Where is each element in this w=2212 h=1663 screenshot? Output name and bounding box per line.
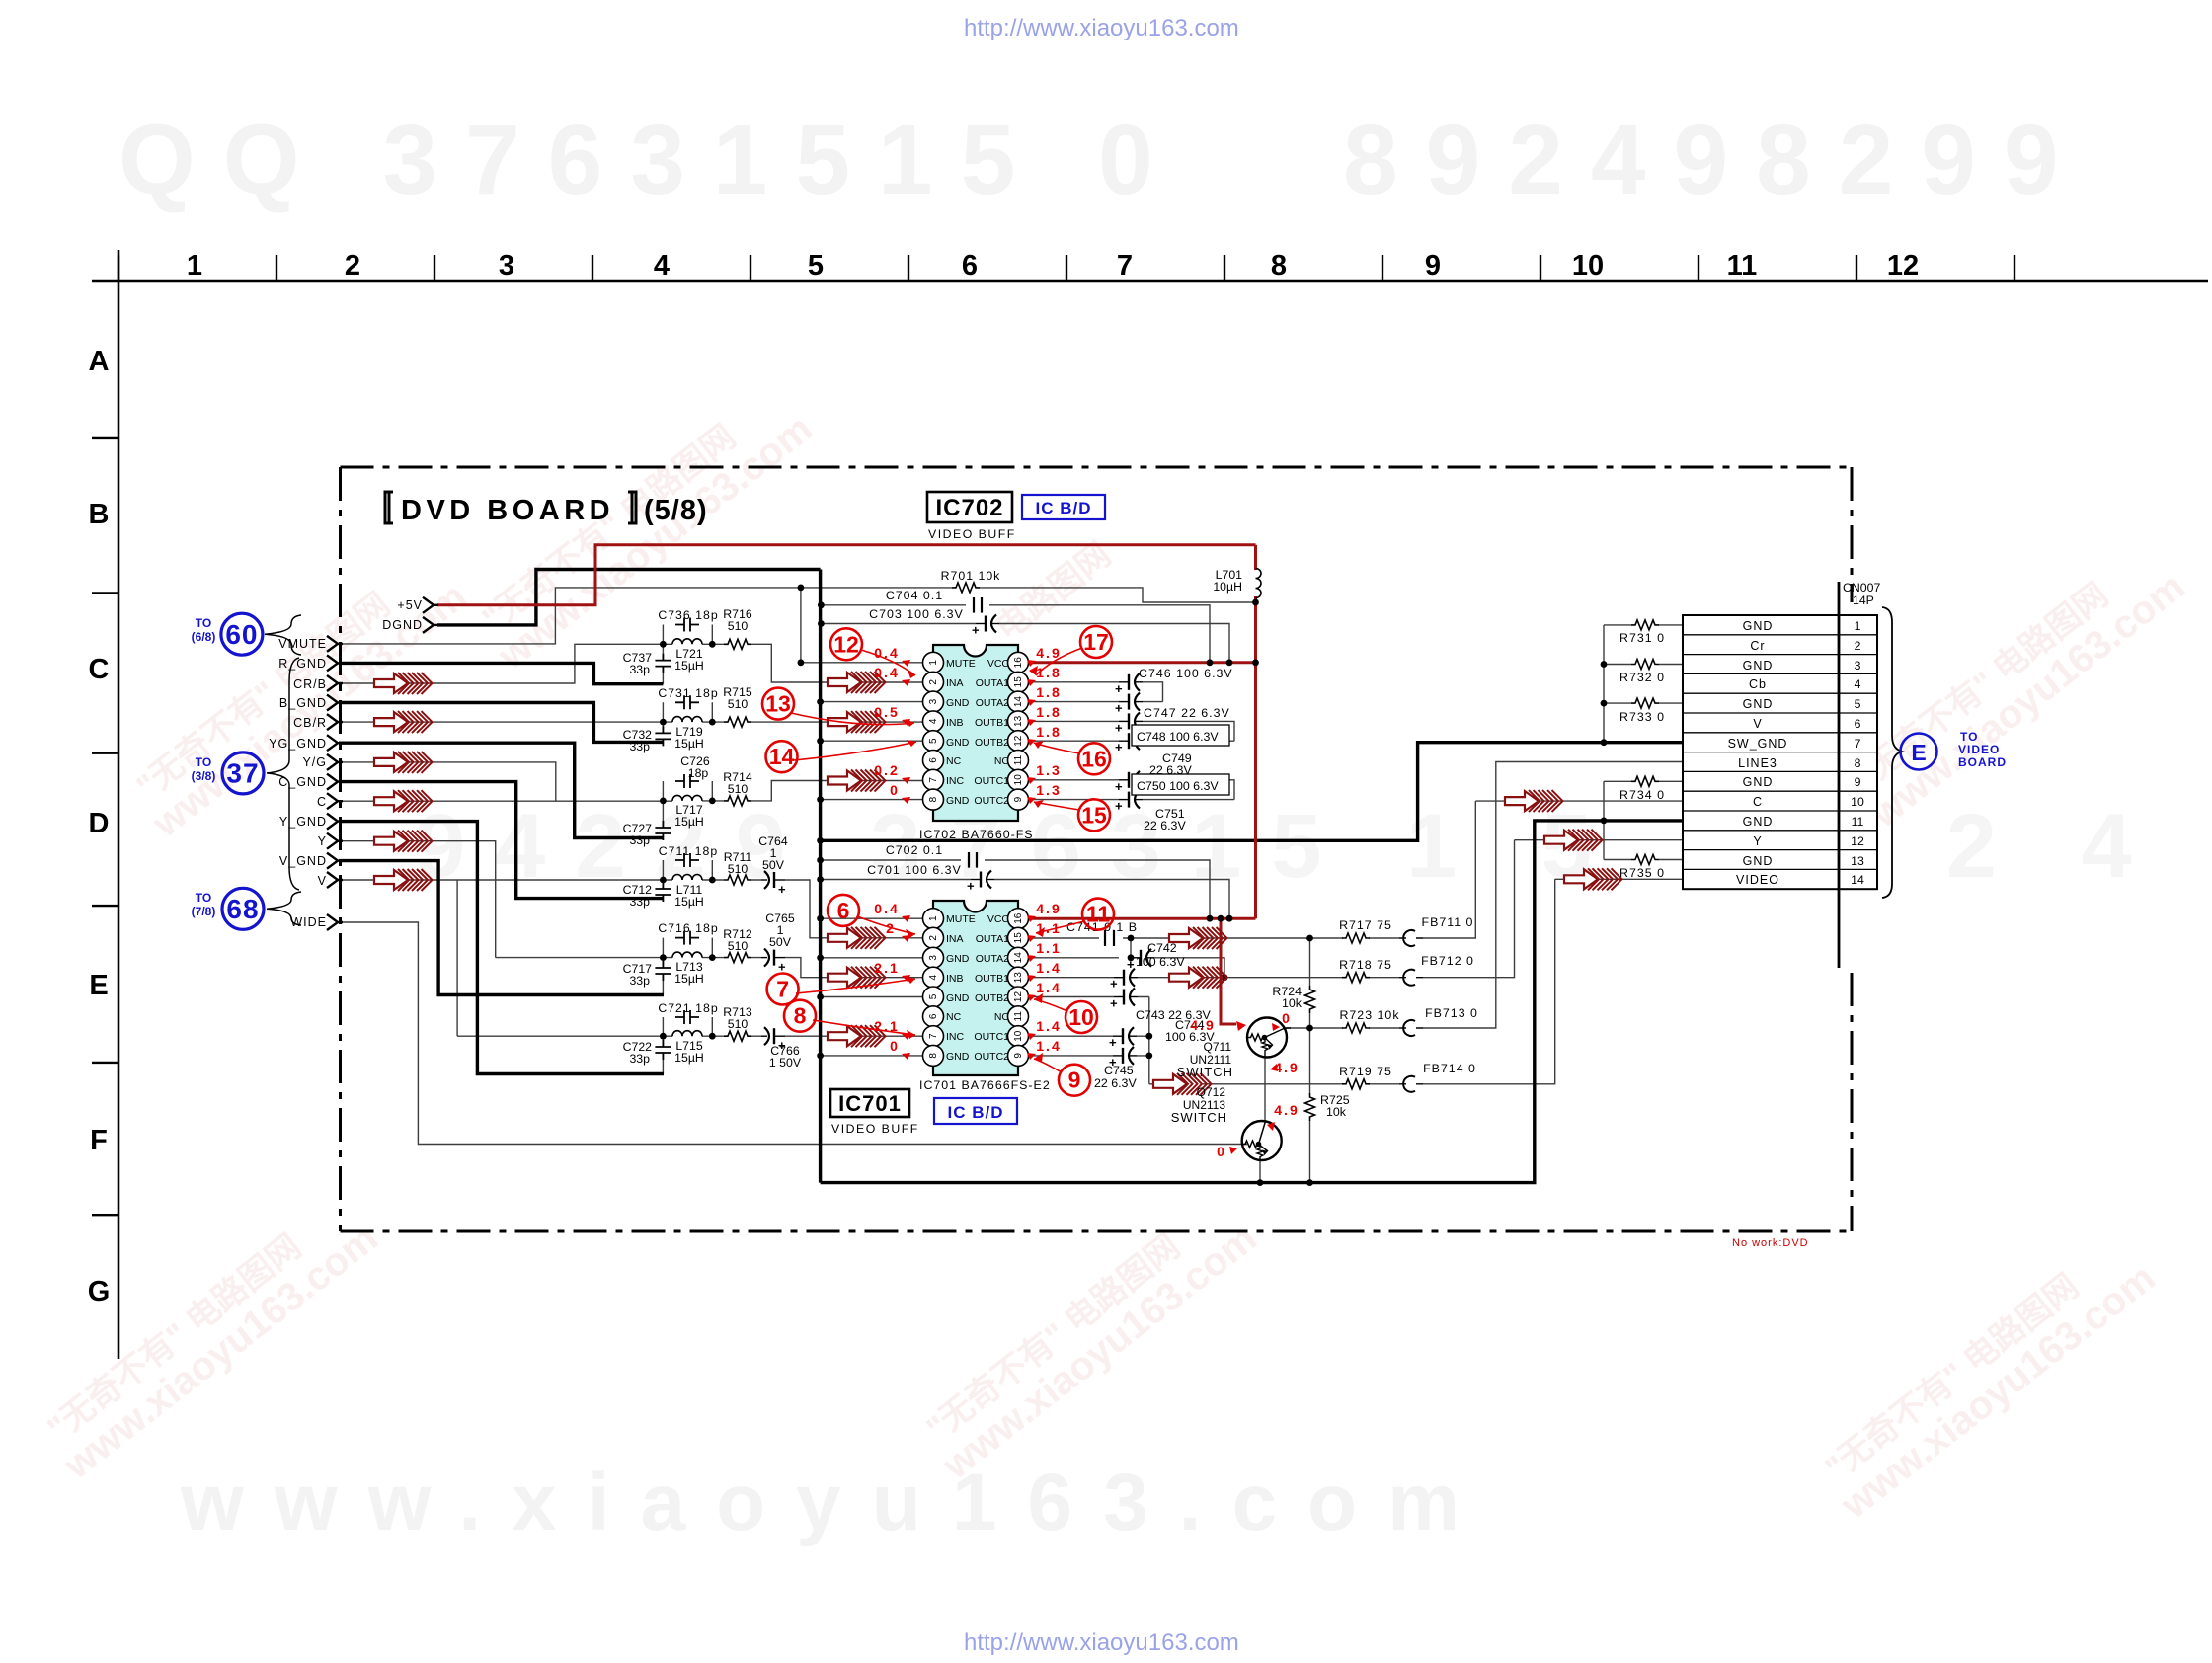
svg-text:1.8: 1.8 [1036,665,1061,680]
svg-text:510: 510 [728,782,749,796]
node IC702 gnd pins [817,698,824,705]
red callout leader curves [791,648,1084,1072]
wire C704 line [821,605,1210,663]
svg-text:1.4: 1.4 [1036,980,1061,995]
svg-text:33p: 33p [629,895,650,909]
svg-text:1.3: 1.3 [1036,762,1061,778]
resistor R733 [1631,698,1659,708]
svg-text:R732 0: R732 0 [1619,671,1665,684]
svg-text:10: 10 [1013,774,1024,786]
resistor R716 [724,639,751,649]
node IC701 pins [817,915,824,922]
svg-text:510: 510 [728,862,749,876]
resistor R723 [1342,1023,1370,1033]
svg-text:(5/8): (5/8) [644,495,708,526]
svg-text:0.4: 0.4 [874,645,899,661]
wire row10 C to connector [1475,800,1683,802]
svg-text:33p: 33p [629,1052,650,1066]
wire SW_GND branch [821,743,1683,841]
wire C row through filter F3 [339,781,923,802]
callout circle 16 [1078,743,1110,774]
svg-text:0.5: 0.5 [874,704,899,720]
dash-dot border box of DVD BOARD [341,467,1853,1231]
svg-text:50V: 50V [769,935,792,949]
svg-text:C_GND: C_GND [278,775,327,789]
svg-text:4.9: 4.9 [1036,901,1061,916]
svg-text:4.9: 4.9 [1190,1017,1215,1033]
svg-text:12: 12 [1013,735,1024,747]
svg-text:0.4: 0.4 [874,665,899,680]
capacitor C704 [974,597,982,613]
arrow V [374,869,433,891]
svg-text:OUTB1: OUTB1 [975,717,1009,729]
svg-text:10k: 10k [1326,1105,1347,1119]
svg-text:http://www.xiaoyu163.com: http://www.xiaoyu163.com [964,15,1239,41]
svg-text:B_GND: B_GND [279,696,327,710]
capacitor C701 [967,871,994,894]
resistor R718 [1342,973,1370,983]
svg-text:MUTE: MUTE [946,913,976,925]
svg-text:37: 37 [226,758,259,789]
svg-text:GND: GND [1743,659,1774,673]
node F4 filter [660,877,667,884]
node C702/C701 taps [817,857,824,864]
node R701/MUTE [798,585,805,592]
svg-text:4: 4 [928,974,939,980]
svg-text:5: 5 [1855,697,1861,711]
node R724 chain [1306,935,1313,942]
svg-text:Y/G: Y/G [302,755,327,769]
svg-text:QQ 37631515 0: QQ 37631515 0 [118,105,1181,215]
arrow Y/G [374,752,433,773]
svg-text:FB714 0: FB714 0 [1423,1062,1476,1075]
node C703 tap [818,620,825,627]
wire R724/R725 chain [1309,938,1311,1183]
svg-text:Cb: Cb [1749,677,1767,691]
svg-text:VIDEO BUFF: VIDEO BUFF [831,1122,919,1136]
svg-text:LINE3: LINE3 [1738,756,1777,770]
wire row14 VIDEO to connector [1555,878,1683,880]
svg-text:14: 14 [1013,952,1024,964]
capacitor C750 [1115,791,1143,814]
svg-text:Q711: Q711 [1204,1040,1232,1054]
svg-text:510: 510 [728,939,749,953]
svg-text:YG_GND: YG_GND [269,737,327,751]
svg-text:VCC: VCC [987,913,1010,925]
svg-text:SWITCH: SWITCH [1171,1110,1227,1125]
svg-text:6: 6 [928,1013,939,1019]
ferrite FB713 [1399,1020,1423,1036]
callout circle 17 [1080,626,1112,658]
svg-text:2: 2 [345,250,360,281]
wire Y_GND [339,822,664,1074]
wire V branch down to filter F6 [456,880,458,1036]
svg-text:15: 15 [1013,932,1024,944]
svg-text:18p: 18p [688,766,709,780]
callout circle 14 [766,741,798,772]
wire R731 group vertical [1603,625,1605,743]
svg-text:OUTA1: OUTA1 [976,933,1009,945]
callout circle 12 [830,628,862,660]
IC701 pins [923,909,1029,1067]
wire R733 row [1604,702,1683,704]
node F2 filter [660,719,667,726]
svg-text:33p: 33p [629,833,650,847]
svg-text:11: 11 [1852,815,1864,829]
wire VCC to IC701 pin16 [1029,917,1256,920]
connector pin line [1838,582,1841,968]
wire F6 row to IC701 pin7 [457,1035,922,1037]
svg-text:12: 12 [1851,834,1864,848]
svg-text:C701 100 6.3V: C701 100 6.3V [867,863,962,877]
svg-text:SWITCH: SWITCH [1177,1065,1233,1079]
svg-text:C731 18p: C731 18p [658,686,718,700]
red leader arrowheads [906,666,1045,1063]
svg-text:IC701 BA7666FS-E2: IC701 BA7666FS-E2 [919,1078,1051,1092]
wire C726 bridge legs [663,781,712,801]
wire Y step down to filter F5 [339,841,496,958]
wire C711 bridge legs [663,860,712,880]
watermark: pink diagonal clusters [33,378,2193,1528]
svg-text:IC B/D: IC B/D [1036,499,1092,517]
resistor R714 [724,796,751,806]
svg-text:6: 6 [837,898,850,923]
svg-text:NC: NC [946,1011,962,1023]
resistor R734 [1631,776,1659,786]
svg-text:www.xiaoyu163.com: www.xiaoyu163.com [180,1458,1490,1547]
wire IC702 pin12 OUTB2 to C748 [1029,740,1235,742]
capacitor C744 [1109,1027,1137,1050]
svg-text:8: 8 [1271,250,1287,281]
svg-text:14: 14 [769,744,795,769]
svg-text:14: 14 [1013,696,1024,708]
svg-text:INA: INA [946,677,964,689]
svg-text:11: 11 [1727,250,1758,281]
svg-text:Y_GND: Y_GND [279,815,327,829]
wire C717 stub [662,958,664,995]
inductor L713 [672,952,702,958]
svg-text:4.9: 4.9 [1274,1102,1299,1118]
svg-text:DGND: DGND [382,618,423,632]
wire R_GND [339,663,663,683]
svg-text:5: 5 [928,738,939,744]
svg-text:7: 7 [1117,250,1133,281]
svg-text:0: 0 [1282,1010,1292,1026]
node gnd branch [817,837,824,844]
capacitor C726 [675,774,699,788]
svg-text:1: 1 [928,660,939,666]
wire C_GND [339,782,664,899]
wire IC702 pin3 GND [821,701,923,703]
node R73x group [1601,661,1608,668]
svg-text:C747 22 6.3V: C747 22 6.3V [1144,706,1230,720]
svg-text:1.1: 1.1 [1036,940,1061,956]
svg-text:(6/8): (6/8) [192,630,216,644]
svg-text:IC B/D: IC B/D [948,1103,1004,1122]
inductor L715 [672,1031,702,1037]
svg-text:GND: GND [946,953,970,965]
capacitor C712 [655,882,671,902]
svg-text:14: 14 [1851,873,1864,887]
svg-text:50V: 50V [762,858,785,872]
ferrite FB712 [1399,970,1423,986]
wire IC701 pin8 GND [821,1055,923,1057]
wire IC702 pin10 OUTC1 to C749 [1029,780,1235,800]
svg-text:6: 6 [1855,717,1861,731]
svg-text:15µH: 15µH [674,895,704,909]
capacitor C717 [655,961,671,981]
wire IC701 pin10 OUTC1 via C744 [1029,1035,1149,1037]
wire DGND input [437,570,821,625]
svg-text:510: 510 [728,1017,749,1031]
svg-text:C736 18p: C736 18p [658,608,718,622]
svg-text:15µH: 15µH [674,1051,704,1065]
ferrite FB711 [1399,930,1423,946]
callout circle 8 [784,1000,816,1032]
svg-text:1.8: 1.8 [1036,704,1061,720]
svg-text:+5V: +5V [397,598,423,612]
svg-text:VIDEO BUFF: VIDEO BUFF [928,527,1016,541]
wire Q711 emitter to Q712 collector [1264,1057,1266,1123]
svg-text:GND: GND [1743,697,1774,711]
svg-text:1 50V: 1 50V [769,1056,802,1069]
resistor R713 [724,1031,751,1041]
svg-text:SW_GND: SW_GND [1728,737,1788,751]
svg-text:10: 10 [1068,1004,1094,1030]
node F6 filter [660,1033,667,1040]
wire R735 row [1604,859,1683,861]
svg-text:BOARD: BOARD [1958,755,2007,769]
svg-text:GND: GND [1743,854,1774,868]
svg-text:8: 8 [1855,756,1861,770]
svg-text:Cr: Cr [1750,639,1765,653]
svg-text:C742: C742 [1147,941,1177,955]
arrow VIDEO to conn [1564,868,1622,890]
svg-text:GND: GND [946,992,970,1004]
svg-text:15µH: 15µH [674,737,704,751]
capacitor C703 [972,615,999,638]
arrow OUTC out [1153,1073,1212,1095]
wire CR/B to filter F1 [339,644,658,683]
svg-text:R717 75: R717 75 [1339,918,1392,932]
svg-text:0.2: 0.2 [874,762,899,778]
svg-text:1.4: 1.4 [1036,960,1061,976]
svg-text:Q712: Q712 [1197,1085,1226,1099]
node F3 filter [660,798,667,805]
wire C712 stub [662,880,664,885]
node C704 tap [818,601,825,608]
svg-text:R_GND: R_GND [278,657,327,671]
wire IC701 pin3 GND [821,957,923,959]
IC702 label box [927,492,1012,522]
svg-text:2: 2 [928,935,939,941]
svg-text:FB711 0: FB711 0 [1422,915,1474,929]
svg-text:1: 1 [187,250,202,281]
svg-text:VCC: VCC [987,658,1010,670]
svg-text:OUTC2: OUTC2 [974,1051,1009,1063]
svg-text:GND: GND [946,795,970,807]
svg-text:892498299: 892498299 [1343,105,2087,215]
svg-text:IC701: IC701 [838,1091,902,1116]
svg-text:R719 75: R719 75 [1339,1065,1392,1078]
svg-text:R733 0: R733 0 [1619,710,1665,724]
capacitor C745 [1109,1047,1137,1069]
svg-text:R718 75: R718 75 [1339,958,1392,972]
arrow INC IC701 [828,1025,886,1047]
svg-text:IC702: IC702 [935,495,1003,521]
wire C731 bridge legs [663,702,712,722]
capacitor C731 [675,695,699,709]
wire C737 stub to R_GND landing [662,644,664,683]
svg-text:3: 3 [928,955,939,961]
svg-text:NC: NC [946,755,962,767]
svg-text:R734 0: R734 0 [1619,788,1665,802]
op-amp/buffer IC702 body [919,645,1034,841]
node Q712 emitter [1257,1179,1264,1186]
svg-text:Y: Y [318,834,327,848]
svg-text:CN007: CN007 [1843,581,1880,594]
svg-text:FB712 0: FB712 0 [1421,954,1474,968]
svg-text:GND: GND [946,1051,970,1063]
svg-text:15µH: 15µH [674,972,704,986]
svg-text:4: 4 [928,718,939,724]
svg-text:C711 18p: C711 18p [659,844,718,858]
svg-text:15: 15 [1013,676,1024,688]
capacitor C732 [655,726,671,746]
wire B_GND [339,703,664,743]
wire C736 bridge legs [663,625,712,645]
capacitor C741 [1105,930,1114,946]
wire OUTC join vertical [1148,997,1150,1084]
wire IC701 pin1 MUTE [821,917,923,919]
svg-text:E: E [1911,740,1926,765]
ruler: left vertical line [118,250,120,1359]
capacitor C737 [655,654,671,673]
wire LINE3 from FB713 [1284,762,1683,1029]
svg-text:1.4: 1.4 [1036,1038,1061,1054]
svg-text:GND: GND [946,737,970,749]
callout circle 11 [1082,899,1114,930]
svg-text:C: C [1753,795,1763,809]
svg-text:TO: TO [196,616,211,630]
svg-text:No work:DVD: No work:DVD [1732,1237,1809,1249]
svg-text:TO: TO [196,755,211,769]
capacitor C742 [1127,949,1154,972]
wire YG_GND [339,743,664,837]
svg-text:7: 7 [1855,737,1861,751]
svg-text:0.4: 0.4 [874,901,899,916]
svg-text:R701 10k: R701 10k [941,569,1001,583]
resistor R717 [1342,933,1370,943]
svg-text:13: 13 [1013,715,1024,727]
svg-text:GND: GND [1743,775,1774,789]
svg-text:22 6.3V: 22 6.3V [1094,1076,1137,1090]
svg-text:15µH: 15µH [674,815,704,829]
ruler: column numbers [187,250,1919,281]
svg-text:9: 9 [1425,250,1441,281]
svg-text:CB/R: CB/R [293,716,327,730]
callout circle 10 [1066,1001,1097,1033]
svg-text:12: 12 [1887,250,1919,281]
arrow INA IC701 [828,927,886,949]
svg-text:0: 0 [890,1038,900,1054]
svg-text:DVD BOARD: DVD BOARD [401,495,614,526]
arrow Y [374,831,433,852]
arrow C [374,790,433,812]
wire IC702 pin15 OUTA1 to C746 and loop [1029,682,1163,702]
inductor L721 [672,639,702,645]
svg-text:TO: TO [196,891,211,905]
capacitor C766 [761,1027,786,1053]
svg-text:F: F [90,1125,108,1156]
wire C702 line [821,860,1210,918]
svg-text:TO: TO [1960,730,1978,744]
wire IC701 pin9 OUTC2 via C745 [1029,1055,1149,1057]
resistor R732 [1631,660,1659,670]
svg-text:INB: INB [946,973,964,985]
svg-text:OUTA2: OUTA2 [976,953,1009,965]
svg-text:7: 7 [776,977,789,1002]
svg-text:NC: NC [994,755,1010,767]
callout circle 6 [828,895,859,926]
svg-text:C745: C745 [1104,1064,1134,1077]
svg-text:1.8: 1.8 [1036,724,1061,740]
wire IC701 pin14 OUTA2 [1029,958,1225,978]
wire C721 bridge legs [663,1017,712,1036]
svg-text:1.8: 1.8 [1036,684,1061,700]
node F5 filter [660,954,667,961]
capacitor on OUTB2 [1110,989,1138,1011]
IC701 IC B/D blue box [934,1098,1017,1124]
svg-text:15: 15 [1081,802,1107,828]
wire R734 row [1604,780,1683,782]
wire IC701 pin13 OUTB1 via cap to R718/FB712 [1029,840,1515,978]
svg-text:(3/8): (3/8) [192,769,216,783]
svg-text:13: 13 [765,691,791,717]
capacitor C765 [761,949,786,975]
node 37 to (3/8) [192,658,299,890]
wire IC702 pin9 OUTC2 to C750 [1029,799,1235,801]
svg-text:OUTC2: OUTC2 [974,795,1009,807]
svg-text:2: 2 [928,679,939,685]
svg-text:GND: GND [1743,815,1774,829]
svg-text:8: 8 [928,796,939,802]
svg-text:10: 10 [1572,250,1604,281]
svg-text:0: 0 [1217,1144,1226,1159]
svg-text:6: 6 [962,250,978,281]
ruler: top tick marks [118,255,2014,281]
svg-text:5: 5 [928,993,939,999]
inductor L711 [672,875,702,881]
svg-text:22 6.3V: 22 6.3V [1144,819,1186,832]
arrow OUTA1 out [1169,927,1227,949]
wire R734 group vertical [1603,781,1605,859]
capacitor C749 [1115,771,1143,794]
svg-text:IC702 BA7660-FS: IC702 BA7660-FS [919,828,1034,841]
svg-text:11: 11 [1013,754,1024,765]
wire IC702 pin8 GND [821,799,923,801]
op-amp/buffer IC701 body [919,901,1051,1092]
svg-text:10: 10 [1013,1030,1024,1042]
wire MUTE pin1 horizontal [801,662,923,664]
wire C716 bridge legs [663,938,712,958]
wire IC702 pin13 OUTB1 to C747 [1029,721,1235,741]
svg-text:WIDE: WIDE [290,915,327,929]
svg-text:510: 510 [728,619,749,633]
red value arrowheads at pins [902,660,1280,1154]
resistor R711 [724,875,751,885]
svg-text:17: 17 [1083,629,1109,655]
